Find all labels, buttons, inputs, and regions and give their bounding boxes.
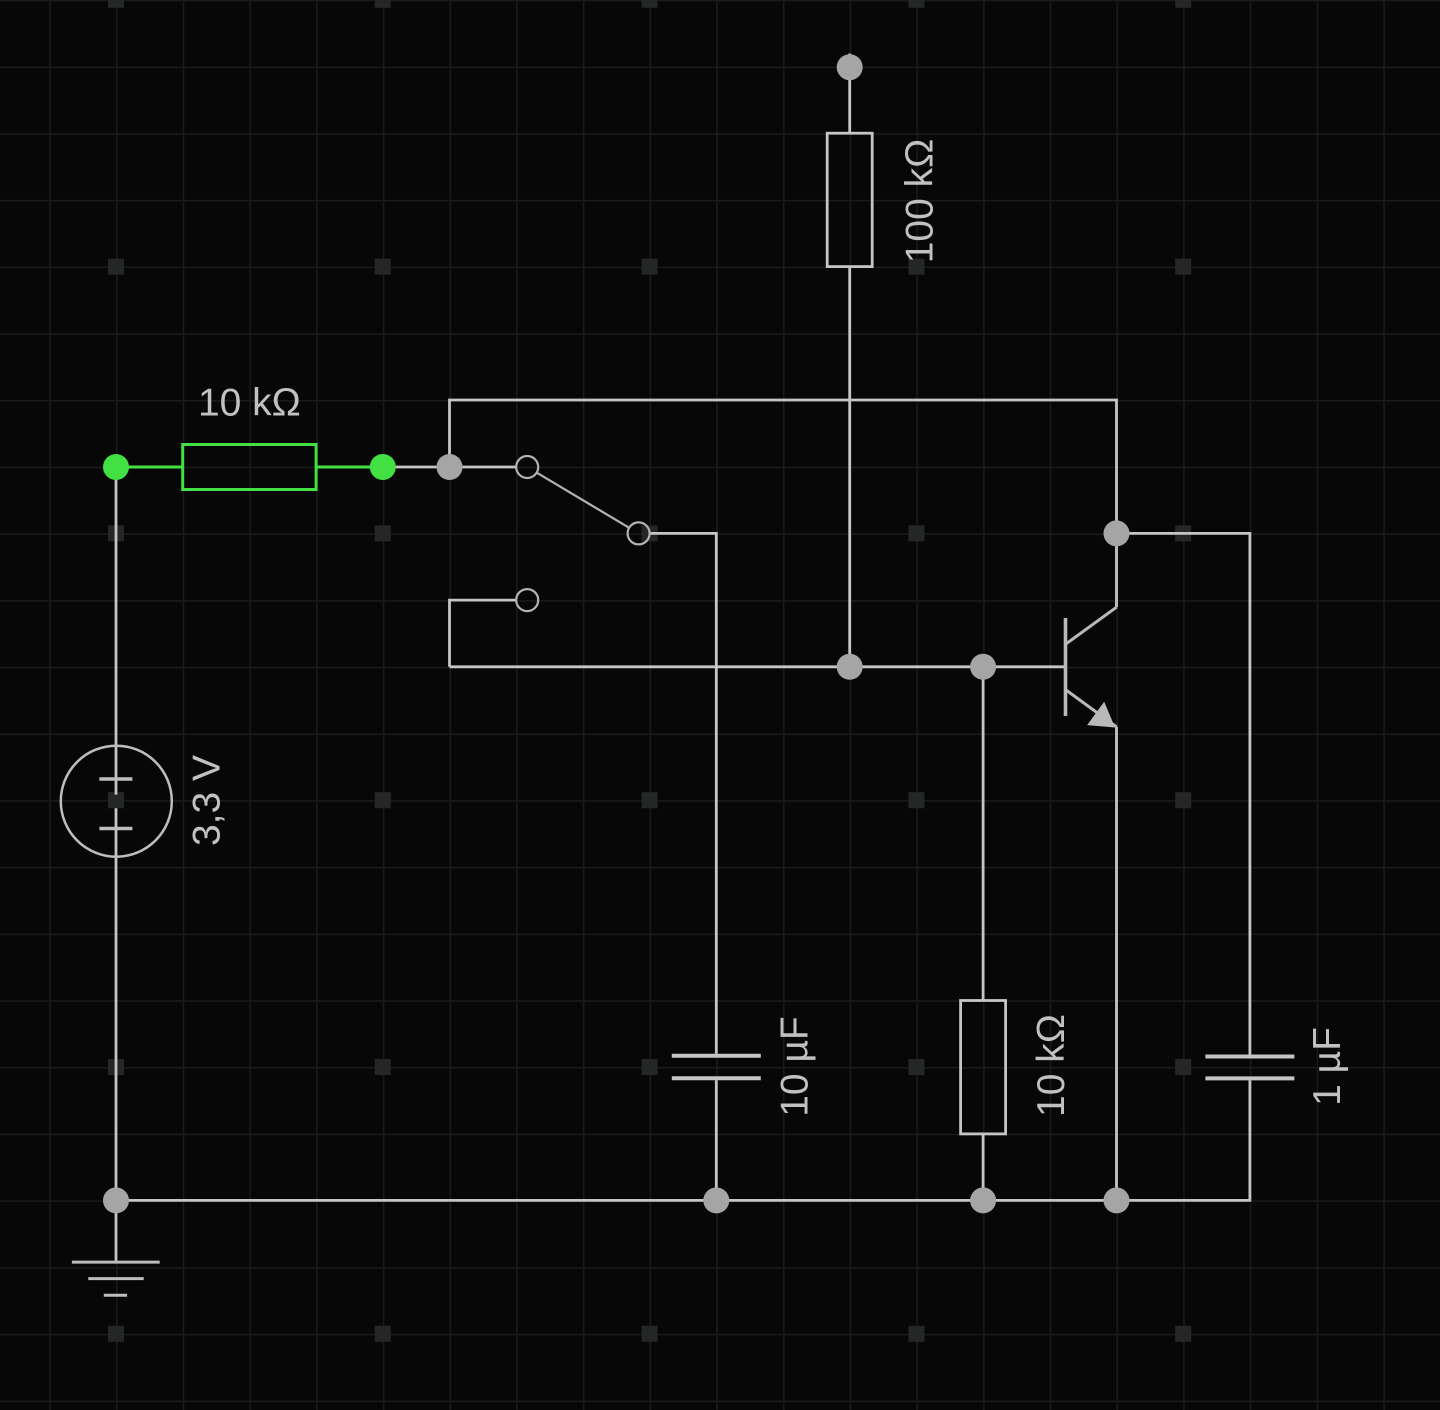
voltage source V1 3.3 V (61, 746, 172, 857)
wire R3 bottom to rail (982, 1134, 985, 1201)
resistor R2 100 kOhm (827, 133, 872, 266)
wire source top lead (115, 467, 118, 795)
wire collector node to 1uF branch (1117, 533, 1250, 1054)
ground GND (72, 1262, 160, 1295)
wire 10uF bottom to rail (715, 1080, 718, 1200)
wire switch node to pole A (450, 466, 517, 469)
wire base node to R3 top (982, 667, 985, 1001)
transistor Q1 NPN (1066, 533, 1117, 726)
node ground mid1 (703, 1187, 729, 1213)
svg-text:10 µF: 10 µF (774, 1016, 817, 1117)
node green right (370, 454, 396, 480)
wire green dot to switch node (383, 466, 450, 469)
node ground left (103, 1187, 129, 1213)
svg-text:100 kΩ: 100 kΩ (899, 139, 942, 264)
node collector (1104, 520, 1130, 546)
node green left (103, 454, 129, 480)
wire source bottom lead (115, 808, 118, 1200)
svg-text:10 kΩ: 10 kΩ (198, 382, 301, 425)
wire R 100k bottom to base node (848, 267, 851, 667)
wire top horizontal collector feedback (450, 400, 1117, 533)
node ground mid2 (970, 1187, 996, 1213)
wire top node to R 100k top (848, 54, 851, 134)
transistor Q1 emitter arrow (1087, 702, 1115, 728)
svg-text:10 kΩ: 10 kΩ (1030, 1014, 1073, 1117)
node ground right (1104, 1187, 1130, 1213)
node base left (837, 654, 863, 680)
wire ground stub (115, 1200, 118, 1260)
node switch common (437, 454, 463, 480)
wire 1uF bottom to ground rail (1117, 1080, 1250, 1200)
wire switch throw C to base wire (450, 600, 517, 667)
wire base horizontal (450, 665, 1065, 668)
wire emitter vertical (1115, 727, 1118, 1201)
node base right (970, 654, 996, 680)
svg-text:1 µF: 1 µF (1306, 1027, 1349, 1106)
capacitor C1 10 uF (672, 1056, 761, 1079)
wire switch throw B to cap branch (649, 533, 717, 1053)
resistor R3 10 kOhm vertical (961, 1001, 1006, 1134)
capacitor C2 1 uF (1205, 1057, 1294, 1079)
node top supply (837, 54, 863, 80)
resistor R1 10 kOhm (highlighted green) (116, 445, 383, 490)
svg-text:3,3 V: 3,3 V (186, 755, 229, 846)
switch S1 (516, 456, 649, 611)
wire bottom ground rail (116, 1199, 1117, 1202)
